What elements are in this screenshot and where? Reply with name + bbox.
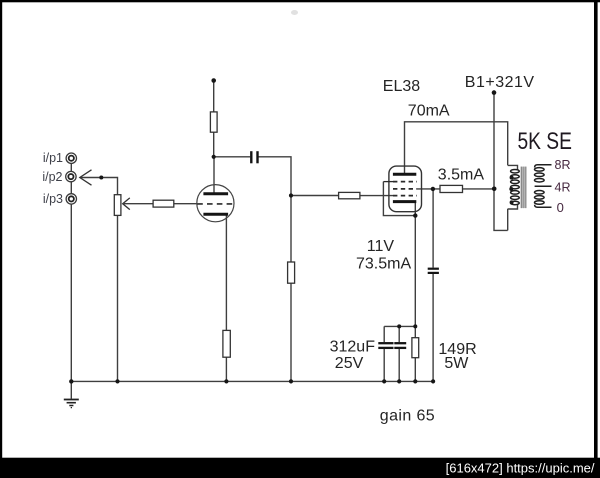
transformer T1 secondary winding xyxy=(535,168,545,205)
node: rail C2 xyxy=(431,379,435,383)
wire: i/p2 arrow to pot top xyxy=(80,178,117,195)
svg-text:[616x472] https://upic.me/: [616x472] https://upic.me/ xyxy=(446,460,595,475)
wire: R2 to plate node xyxy=(213,132,215,157)
svg-text:EL38: EL38 xyxy=(383,78,420,95)
pentode V2 g2 (dashed) xyxy=(393,188,417,190)
resistor R1 (grid stopper, horizontal) xyxy=(153,200,174,207)
connector i/p3 xyxy=(66,194,76,204)
svg-text:gain 65: gain 65 xyxy=(380,407,435,424)
svg-text:5K SE: 5K SE xyxy=(518,127,572,155)
svg-text:i/p2: i/p2 xyxy=(42,170,62,184)
wire: R4 to EL38 g1 xyxy=(360,195,393,197)
resistor R5 (screen feed) xyxy=(440,185,463,192)
wire: ground rail xyxy=(71,380,433,382)
svg-text:70mA: 70mA xyxy=(408,103,450,120)
wire: screen bypass cap C2 branch xyxy=(432,189,434,268)
node: rail ground xyxy=(69,379,73,383)
node: triode plate xyxy=(212,155,216,159)
node: rail C3 xyxy=(382,379,386,383)
wire: triode plate lead xyxy=(213,157,215,194)
transformer T1 primary loop dots xyxy=(509,176,513,205)
wire: transformer primary bottom bracket xyxy=(507,209,509,231)
svg-text:312uF: 312uF xyxy=(330,338,376,355)
wire: triode cathode resistor R7 to rail xyxy=(225,357,227,381)
wire: pot bottom to rail xyxy=(117,215,119,381)
node: rail C4 xyxy=(397,379,401,383)
svg-text:8R: 8R xyxy=(555,158,571,172)
pentode V2 EL38 envelope xyxy=(389,166,422,212)
potentiometer wiper arrow xyxy=(123,198,130,210)
pentode V2 plate xyxy=(393,173,416,176)
node: cathode net top R6 xyxy=(413,324,417,328)
transformer T1 tap 4R xyxy=(535,185,552,187)
capacitor C1 (coupling) xyxy=(251,151,257,163)
pentode V2 g1 (dashed) xyxy=(393,195,417,197)
wire: C3 leads xyxy=(383,326,385,342)
capacitor C2 (screen bypass) xyxy=(428,269,439,273)
node: rail R7 xyxy=(224,379,228,383)
svg-text:5W: 5W xyxy=(444,355,469,372)
wire: R3 to rail xyxy=(290,283,292,381)
wire: plate node to coupling cap C1 xyxy=(214,156,251,158)
node: rail R3 xyxy=(289,379,293,383)
ground symbol xyxy=(64,400,79,408)
triode V1 grid (dashed) xyxy=(197,203,233,205)
resistor R4 (EL38 grid stopper) xyxy=(339,192,360,198)
potentiometer VR1 body xyxy=(114,195,121,216)
wire: node to grid leak R3 xyxy=(290,196,292,263)
wire: node to EL38 grid stopper R4 xyxy=(291,195,339,197)
resistor R2 (plate load, vertical) xyxy=(210,112,217,132)
wire: screen resistor R5 to B+ line xyxy=(463,188,495,190)
node: pot top / i-p2 xyxy=(99,176,103,180)
svg-text:3.5mA: 3.5mA xyxy=(438,167,485,184)
resistor R6 (cathode 149R) xyxy=(412,338,419,358)
triode V1 plate xyxy=(203,192,228,195)
wire: EL38 cathode lead down xyxy=(414,202,416,327)
node: rail R6 xyxy=(413,379,417,383)
transformer T1 primary winding xyxy=(511,169,520,204)
wire: C2 to rail xyxy=(432,274,434,382)
node: screen g2 xyxy=(431,187,435,191)
pentode V2 cathode xyxy=(393,200,416,203)
input select arrow at i/p2 xyxy=(80,170,92,185)
wire: cathode resistor R6 leads xyxy=(414,326,416,337)
node: rail pot xyxy=(115,379,119,383)
wire: input jack bus down to ground rail xyxy=(70,163,72,381)
node: EL38 grid xyxy=(289,193,293,197)
svg-text:4R: 4R xyxy=(555,180,571,194)
resistor R3 (grid leak, vertical) xyxy=(288,262,295,283)
transformer T1 tap 0 xyxy=(535,205,552,208)
wire: pot wiper to grid resistor R1 xyxy=(124,203,153,205)
pentode V2 g3 (dashed) xyxy=(383,181,417,183)
svg-text:0: 0 xyxy=(557,200,564,215)
wire: suppressor wrap to cathode xyxy=(383,182,415,216)
capacitor C4 (cathode bypass) xyxy=(394,343,406,348)
wire: cathode network top bar xyxy=(384,325,415,327)
svg-text:i/p1: i/p1 xyxy=(43,151,63,165)
wire: C1 to node G2grid corner xyxy=(258,157,291,196)
wire: B+ feed line xyxy=(494,93,508,231)
wire: C4 leads xyxy=(398,326,400,342)
triode V1 cathode xyxy=(203,213,228,216)
wire: B+ node to plate load R2 xyxy=(213,81,215,112)
wire: triode cathode lead xyxy=(225,214,227,330)
connector i/p1 xyxy=(66,153,76,163)
connector i/p2 xyxy=(66,171,76,181)
triode V1 envelope xyxy=(197,185,234,222)
wire: ground stem xyxy=(70,381,72,398)
transformer T1 core xyxy=(521,167,527,209)
svg-text:11V: 11V xyxy=(367,238,395,255)
wire: EL38 screen g2 to node xyxy=(417,188,441,190)
wire: R1 to triode grid xyxy=(174,203,197,205)
wire: EL38 plate to 70mA top wire xyxy=(405,122,508,174)
transformer T1 tap 8R xyxy=(535,165,552,168)
node: cathode net top C4 xyxy=(397,324,401,328)
node: EL38 cathode/suppressor xyxy=(413,213,417,217)
node: B1 supply top xyxy=(492,90,497,95)
node: B+ triode supply xyxy=(211,78,216,83)
svg-text:73.5mA: 73.5mA xyxy=(356,255,411,272)
resistor R7 (triode cathode) xyxy=(223,330,230,357)
node: B+ screen tap xyxy=(492,187,497,192)
svg-text:25V: 25V xyxy=(335,355,364,372)
capacitor C3 (cathode bypass) xyxy=(378,343,393,348)
transformer T1 primary stubs xyxy=(508,165,518,209)
svg-text:i/p3: i/p3 xyxy=(43,192,63,206)
svg-text:B1+321V: B1+321V xyxy=(465,74,535,91)
